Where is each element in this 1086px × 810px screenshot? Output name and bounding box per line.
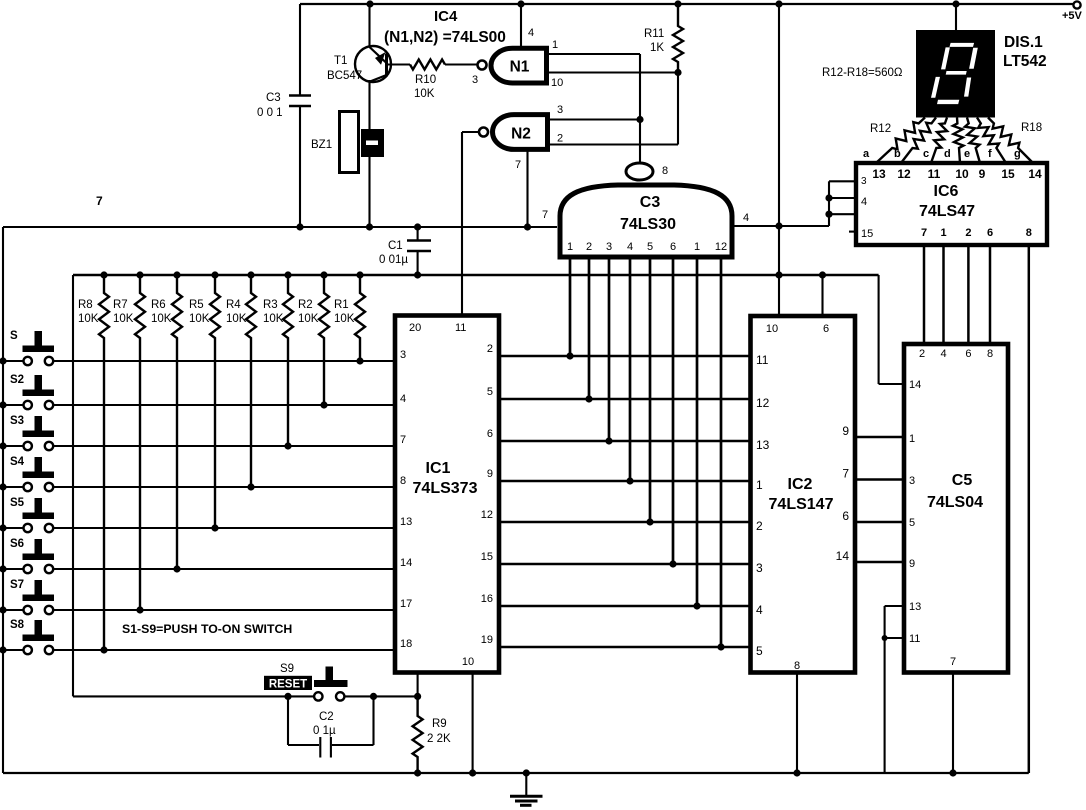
wire IC3 input stub 4 [629,259,632,481]
wire N2 output to IC1 pin11 [462,132,479,316]
svg-text:(N1,N2) =74LS00: (N1,N2) =74LS00 [384,29,506,46]
junction S6 rail [0,565,7,572]
wire IC6 pin5 [829,213,856,215]
svg-text:9: 9 [979,167,986,181]
svg-text:1: 1 [756,478,763,492]
svg-text:2 2K: 2 2K [427,733,451,745]
junction bus rail [775,271,782,278]
svg-text:RESET: RESET [269,678,307,690]
svg-text:3: 3 [400,349,406,361]
svg-text:3: 3 [472,74,478,86]
wire C5 pin11 [885,637,904,639]
wire IC2 pin6 vertical [821,275,823,316]
svg-text:9: 9 [487,468,493,480]
svg-text:4: 4 [756,603,763,617]
svg-text:C1: C1 [388,240,403,252]
wire N1 out vertical to IC3 bubble [639,54,641,163]
wire net7 horizontal [3,194,557,227]
junction N2 pin3 feedback [636,116,643,123]
svg-text:R2: R2 [298,299,313,311]
svg-text:R7: R7 [113,299,128,311]
svg-text:7: 7 [921,227,927,239]
junction R1 bus [356,271,363,278]
svg-text:9: 9 [909,558,915,570]
ic IC1 74LS373 [395,316,499,673]
svg-text:14: 14 [836,549,850,563]
svg-text:11: 11 [756,353,769,367]
svg-text:7: 7 [515,159,521,171]
svg-text:4: 4 [940,348,946,360]
svg-text:16: 16 [481,593,493,605]
wire ground rail [3,772,1029,774]
wire IC6 pin3 [829,180,856,182]
junction S1 rail [0,357,7,364]
wire IC2 pin8 bottom [796,673,798,774]
resistor R1 [334,275,365,361]
labels IC3 bottom pins [567,241,727,253]
junction rail pin4 net [775,222,782,229]
junction C5 pin11 [882,635,888,641]
svg-text:R18: R18 [1021,122,1042,134]
wire row S2 [3,404,395,406]
svg-text:74LS30: 74LS30 [620,216,676,233]
wire IC2 pin9 to C5 [855,436,904,438]
svg-text:10: 10 [766,323,778,335]
svg-text:f: f [988,148,992,160]
svg-text:S3: S3 [10,415,24,427]
junction S5 rail [0,524,7,531]
svg-text:g: g [1014,148,1021,160]
wire T1 collector [368,4,370,47]
labels IC1 left pins [400,349,412,650]
junction R6 row [173,565,180,572]
display DIS.1 LT542 [916,30,995,118]
svg-text:IC4: IC4 [434,8,458,25]
svg-text:R10: R10 [415,74,436,86]
svg-text:7: 7 [400,434,406,446]
svg-text:10K: 10K [263,313,284,325]
wire IC2 pin7 to C5 [855,478,904,480]
label IC4 [434,8,458,25]
wire IC6 to C5 x968.4 [967,245,970,344]
svg-text:BC547: BC547 [327,70,362,82]
svg-text:IC6: IC6 [934,183,959,200]
label LT542 [1003,53,1047,70]
svg-text:R9: R9 [432,718,447,730]
svg-text:S2: S2 [10,374,24,386]
svg-text:12: 12 [897,167,911,181]
svg-text:R8: R8 [78,299,93,311]
wire IC3 pin4 to IC6 [734,225,829,227]
svg-text:4: 4 [400,393,406,405]
svg-text:6: 6 [965,348,971,360]
wire IC2 pin6 to C5 [855,521,904,523]
label R18 [1021,122,1042,134]
svg-text:13: 13 [909,601,921,613]
wire R10 to N1 [445,63,477,65]
junction R9 top [414,693,421,700]
junction R8 row [100,646,107,653]
junction C3cap net7 [296,223,303,230]
svg-text:S7: S7 [10,579,24,591]
wire IC3 input stub 8 [720,259,723,647]
labels IC2 left pins [756,353,770,658]
svg-text:10K: 10K [113,313,134,325]
svg-text:IC1: IC1 [426,460,451,477]
wire C5 pin7 bottom [952,673,954,774]
labels IC1 top pins [409,322,466,334]
svg-text:74LS147: 74LS147 [769,496,834,513]
wire IC1 pin10 bottom [472,673,474,774]
svg-text:S4: S4 [10,456,25,468]
svg-text:S: S [10,330,18,342]
svg-text:6: 6 [670,241,676,253]
svg-text:1: 1 [694,241,700,253]
svg-text:BZ1: BZ1 [311,139,332,151]
svg-text:N2: N2 [511,126,531,143]
terminal +5V [1062,1,1083,22]
buzzer BZ1 [311,112,384,173]
junction R5 bus [211,271,218,278]
svg-text:74LS04: 74LS04 [927,494,983,511]
svg-text:8: 8 [794,660,800,672]
svg-text:R12-R18=560Ω: R12-R18=560Ω [822,67,903,79]
svg-text:2: 2 [965,227,971,239]
svg-text:74LS373: 74LS373 [413,480,478,497]
svg-text:11: 11 [928,167,941,181]
svg-text:DIS.1: DIS.1 [1004,34,1043,51]
label IC3 pin7 [542,209,548,221]
svg-text:4: 4 [743,212,749,224]
svg-text:1: 1 [552,39,558,51]
resistor R11 [644,4,683,73]
svg-text:8: 8 [987,348,993,360]
svg-text:13: 13 [400,516,412,528]
ic IC6 74LS47 [856,163,1047,245]
junction T1 collector to rail [366,0,373,7]
svg-text:IC2: IC2 [788,476,813,493]
wire C5 13-11 vertical to ground rail [884,606,886,773]
svg-text:7: 7 [842,467,849,481]
svg-text:+5V: +5V [1062,10,1083,22]
label IC1 pin10 bottom [462,656,474,668]
svg-text:8: 8 [400,475,406,487]
wire row S7 [3,609,395,611]
wire rail x779 [778,4,780,316]
ground [510,773,543,805]
resistor R14 [931,118,947,164]
svg-text:10K: 10K [78,313,99,325]
svg-text:R1: R1 [334,299,349,311]
svg-text:3: 3 [909,475,915,487]
labels IC2 top pins [766,323,829,335]
svg-text:R5: R5 [189,299,204,311]
wire row IC1-IC2 y606 [499,605,751,608]
junction ground tap [523,769,530,776]
wire IC3 input stub 1 [569,259,572,356]
svg-text:S8: S8 [10,619,25,631]
wire IC1 pin1 bottom [417,673,419,697]
junction S8 rail [0,646,7,653]
wire row IC1-IC2 y356 [499,355,751,358]
svg-text:10K: 10K [226,313,247,325]
wire IC6 pin15 stub [849,231,856,233]
nand gate IC3 74LS30 [560,163,732,257]
svg-text:2: 2 [919,348,925,360]
svg-text:N1: N1 [510,59,530,76]
junction R11 N1pin10 [674,69,681,76]
svg-text:4: 4 [528,27,534,39]
junction R6 bus [173,271,180,278]
switch S6 [10,538,54,573]
label DIS.1 [1004,34,1043,51]
junction R4 bus [247,271,254,278]
svg-text:C3: C3 [640,194,661,211]
wire bus horizontal [73,274,879,276]
wire IC3 input stub 2 [588,259,591,399]
svg-text:18: 18 [400,638,412,650]
svg-text:0 0 1: 0 0 1 [257,107,283,119]
junction bus IC2pin6 [819,271,826,278]
svg-text:S6: S6 [10,538,24,550]
junction IC1 pin10 ground [469,769,476,776]
labels segments a-g [863,148,1021,160]
label push-to-on note [122,622,292,636]
junction IC3 stub 2 [585,395,592,402]
wire C3 bottom [299,106,301,227]
junction IC6 pin5 [825,211,832,218]
svg-text:8: 8 [1026,227,1032,239]
junction C2 left [284,693,291,700]
labels IC2 right pins [836,424,850,563]
resistor R6 [151,275,182,569]
label N1 pin3 [472,74,478,86]
svg-text:10K: 10K [189,313,210,325]
wire S9 row [73,695,418,697]
svg-text:2: 2 [586,241,592,253]
labels C5 top pins [919,348,993,360]
wire bus right drop to C5 pin14 [879,275,904,384]
wire IC3 input stub 7 [696,259,699,606]
labels C5 left pins [909,379,921,645]
junction N1 pin4 to rail [517,0,524,7]
svg-text:15: 15 [1001,167,1015,181]
junction R5 row [211,524,218,531]
wire IC6 pin4 [829,197,856,199]
svg-text:R3: R3 [263,299,278,311]
svg-text:10K: 10K [414,88,435,100]
junction S2 rail [0,401,7,408]
switch S7 [10,579,54,614]
svg-text:11: 11 [909,633,920,645]
capacitor C1 [379,227,431,275]
svg-text:12: 12 [756,396,770,410]
svg-text:13: 13 [872,167,886,181]
svg-text:R12: R12 [870,123,891,135]
svg-text:1: 1 [909,433,915,445]
svg-text:13: 13 [756,438,770,452]
wire row IC1-IC2 y399 [499,398,751,401]
svg-text:2: 2 [756,519,763,533]
svg-text:17: 17 [400,598,412,610]
junction R4 row [247,483,254,490]
svg-text:15: 15 [481,551,493,563]
wire T1 emitter to buzzer [368,80,370,130]
labels IC6 left pins [861,176,873,240]
junction S3 rail [0,442,7,449]
svg-text:b: b [894,148,901,160]
junction C2 right [370,693,377,700]
capacitor C2 [288,696,374,757]
label R12 [870,123,891,135]
wire IC6 to C5 x943.5 [942,245,945,344]
resistor R10 [410,60,445,101]
wire row S8 [3,649,395,651]
capacitor C3 [257,92,311,119]
svg-text:6: 6 [487,428,493,440]
wire IC3 input stub 5 [649,259,652,522]
junction IC3 stub 7 [693,602,700,609]
svg-text:R4: R4 [226,299,241,311]
switch S4 [10,456,54,491]
svg-text:R11: R11 [644,28,664,40]
junction IC2 rail to top rail [775,0,782,7]
switch S1 [10,330,54,365]
svg-text:8: 8 [662,165,668,177]
svg-text:5: 5 [909,517,915,529]
resistor R5 [189,275,220,528]
svg-text:74LS47: 74LS47 [919,203,975,220]
wire row IC1-IC2 y522 [499,521,751,524]
svg-text:4: 4 [861,196,867,208]
junction R2 row [320,401,327,408]
junction IC3 stub 8 [717,643,724,650]
resistor R18 [988,118,1033,164]
junction S7 rail [0,606,7,613]
resistor R17 [977,118,1006,164]
svg-text:S5: S5 [10,497,25,509]
wire IC2 pin14 to C5 [855,561,904,563]
labels IC6 bottom pins [921,227,1032,239]
svg-text:6: 6 [823,323,829,335]
svg-text:19: 19 [481,634,493,646]
junction bus C1 [414,271,421,278]
junction R2 bus [320,271,327,278]
resistor R16 [965,118,980,164]
wire C5 pin13 [885,605,904,607]
svg-text:15: 15 [861,228,873,240]
wire row IC1-IC2 y481 [499,480,751,483]
svg-text:5: 5 [756,644,763,658]
resistor R15 [953,118,964,164]
label N2 pin2 [557,133,563,145]
switch S2 [10,374,54,409]
svg-text:9: 9 [842,424,849,438]
wire IC3 input stub 6 [672,259,675,564]
resistor R3 [263,275,293,446]
svg-text:3: 3 [606,241,612,253]
wire row S6 [3,568,395,570]
nand gate N2 [479,115,548,150]
switch S9 RESET [264,663,348,701]
svg-text:LT542: LT542 [1003,53,1047,70]
svg-text:10: 10 [551,77,563,89]
junction DIS.1 to rail [952,0,959,7]
svg-text:C3: C3 [266,92,281,104]
wire IC3 input stub 3 [608,259,611,441]
wire N2 pin3 [549,104,640,120]
wire N1 pin10 [548,73,678,90]
svg-text:1K: 1K [650,42,664,54]
switch S3 [10,415,54,450]
junction R7 row [136,606,143,613]
junction IC6 pin4 [825,194,832,201]
junction N2pin7 net7 [524,223,531,230]
junction R8 bus [100,271,107,278]
svg-text:R6: R6 [151,299,166,311]
junction IC3 stub 6 [669,560,676,567]
svg-text:10: 10 [462,656,474,668]
junction IC3 stub 1 [566,352,573,359]
resistor R7 [113,275,145,610]
svg-text:1: 1 [567,241,573,253]
svg-text:3: 3 [756,561,763,575]
switch S8 [10,619,54,654]
junction C1 net7 [414,223,421,230]
svg-text:3: 3 [557,104,563,116]
junction R11 to rail [674,0,681,7]
resistor R12 [876,118,925,164]
svg-text:2: 2 [557,133,563,145]
svg-text:0 01µ: 0 01µ [379,254,408,266]
svg-text:S9: S9 [280,663,294,675]
svg-text:2: 2 [487,343,493,355]
wire +5V top rail [300,3,1074,5]
wire row S1 [3,360,395,362]
svg-text:11: 11 [455,322,466,334]
switch S5 [10,497,54,532]
junction S4 rail [0,483,7,490]
junction R7 bus [136,271,143,278]
label IC2 pin8 bottom [794,660,800,672]
junction R9 ground [414,769,421,776]
svg-text:e: e [964,148,970,160]
label (N1,N2)=74LS00 [384,29,506,46]
label IC3 pin4 [743,212,749,224]
wire left rail [2,227,4,773]
svg-text:C5: C5 [952,472,973,489]
wire R11 to N2 pin2 [549,73,678,145]
junction IC3 stub 5 [646,518,653,525]
wire row IC1-IC2 y441 [499,440,751,443]
labels IC6 top pins [872,167,1042,181]
label R12-R18=560 [822,67,903,79]
wire IC6 left vertical [828,181,830,226]
svg-text:C2: C2 [319,711,334,723]
nand gate N1 [478,48,547,83]
wire N1 pin4 [521,4,534,47]
junction C5 pin7 ground [949,769,956,776]
junction R3 bus [284,271,291,278]
resistor R8 [78,275,109,650]
svg-text:20: 20 [409,322,421,334]
wire row S3 [3,445,395,447]
transistor T1 [327,46,391,82]
junction BZ1 net7 [366,223,373,230]
junction IC3 stub 4 [626,477,633,484]
resistor R2 [298,275,329,405]
resistor R9 [413,696,451,773]
